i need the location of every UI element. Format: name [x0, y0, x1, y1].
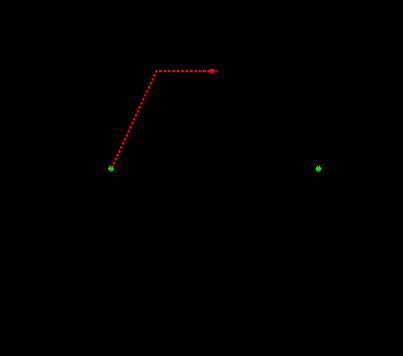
- node: green star marker right (goal): [316, 166, 322, 172]
- wire: red dashed trajectory path: [112, 71, 218, 169]
- node: red endpoint dot: [210, 69, 215, 74]
- node: green star marker left (start): [108, 166, 114, 172]
- wire: path overlap on start marker: [110, 164, 114, 172]
